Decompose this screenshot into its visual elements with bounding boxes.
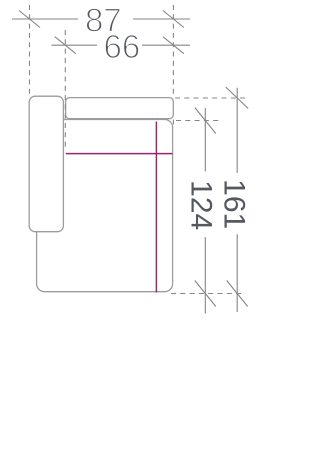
svg-text:124: 124 <box>185 180 218 230</box>
svg-text:161: 161 <box>217 179 250 229</box>
svg-text:66: 66 <box>104 28 141 65</box>
